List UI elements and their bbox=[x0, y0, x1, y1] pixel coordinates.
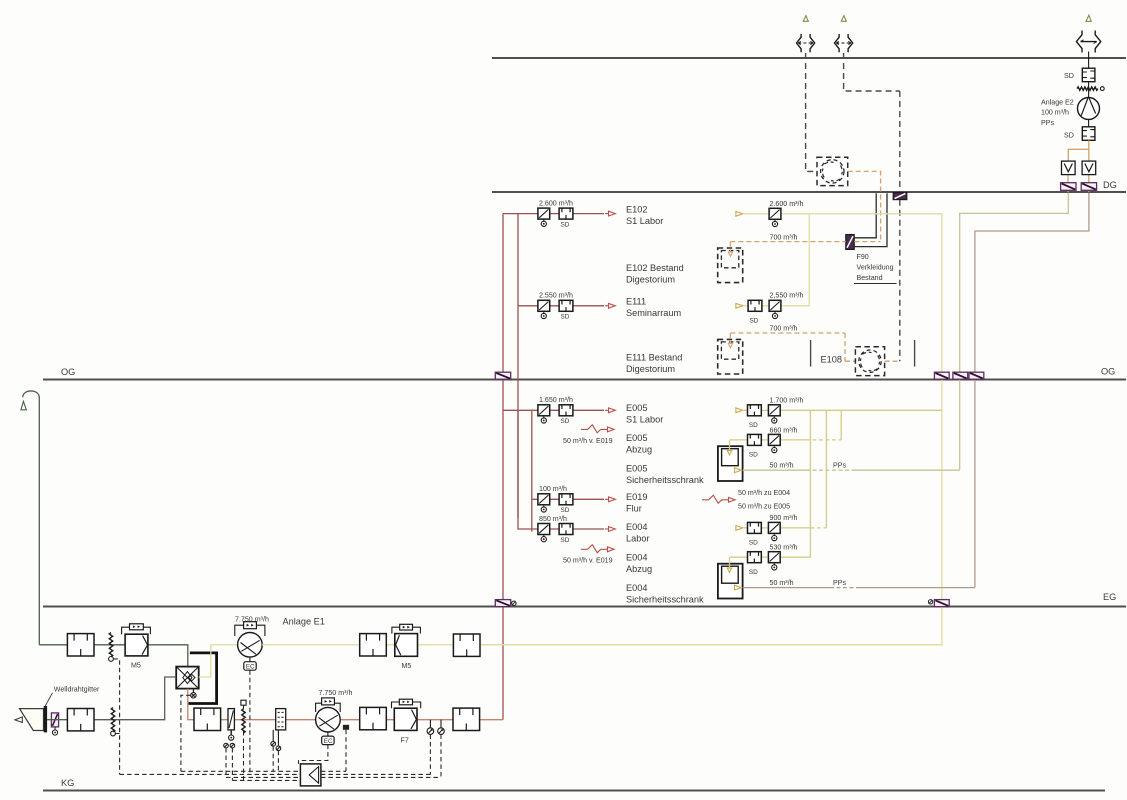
volume controller E102 bbox=[538, 208, 550, 226]
silencer 5 bbox=[194, 708, 221, 730]
wall mark right of E108 bbox=[914, 340, 916, 367]
svg-text:850 m³/h: 850 m³/h bbox=[539, 515, 567, 523]
silencer SD top (Anlage E2) bbox=[1082, 68, 1095, 82]
transfer zigzag zu E004/E005 bbox=[702, 495, 735, 503]
arrow 1.700 exhaust bbox=[736, 408, 743, 413]
svg-text:OG: OG bbox=[1101, 367, 1115, 377]
svg-text:SD: SD bbox=[561, 222, 570, 229]
svg-text:DG: DG bbox=[1103, 180, 1117, 190]
heat exchanger bbox=[176, 667, 199, 689]
fire damper exhaust riser OG bbox=[934, 372, 949, 379]
crossing dashes 900 row bbox=[810, 527, 826, 529]
svg-text:PPs: PPs bbox=[833, 461, 846, 469]
exhaust discharge duct row 2 bbox=[47, 677, 176, 720]
KG floor line bbox=[43, 790, 1105, 792]
svg-text:EG: EG bbox=[1103, 592, 1116, 602]
svg-text:100 m³/h: 100 m³/h bbox=[539, 485, 567, 493]
leader Welldrahtgitter bbox=[44, 693, 53, 708]
hood drop E111 bbox=[728, 333, 732, 348]
duct attic fan to shaft (tan dashed) bbox=[848, 171, 881, 241]
arrow E111 supply bbox=[605, 303, 615, 308]
filter M5 exhaust bbox=[392, 624, 421, 656]
transfer zigzag E004 Abzug bbox=[581, 545, 614, 553]
control wire supply fan EC bbox=[299, 745, 328, 764]
svg-text:F7: F7 bbox=[401, 736, 409, 744]
fume hood E102 Bestand bbox=[718, 248, 743, 283]
volume controller E111 exhaust bbox=[769, 300, 781, 318]
EC box exhaust fan bbox=[244, 657, 256, 670]
roof vent 2 (Bestand) bbox=[835, 34, 853, 52]
silencer SD E004 bbox=[559, 524, 573, 535]
svg-text:2.600 m³/h: 2.600 m³/h bbox=[539, 200, 573, 208]
exhaust duct 900 row bbox=[744, 527, 810, 529]
silencer SD 660 bbox=[748, 434, 762, 445]
crossing dashes 50 E005 bbox=[806, 469, 855, 471]
svg-text:7.750 m³/h: 7.750 m³/h bbox=[235, 616, 269, 624]
fire damper riser EG bbox=[495, 600, 516, 607]
silencer SD E102 bbox=[559, 208, 573, 219]
control wire flex1 bbox=[113, 659, 119, 775]
branch E111 supply duct bbox=[550, 305, 604, 307]
riser 530 to 1.700 bbox=[809, 410, 811, 557]
svg-text:PPs: PPs bbox=[833, 579, 846, 587]
svg-text:SD: SD bbox=[749, 452, 758, 459]
flex end circle bbox=[1100, 87, 1104, 91]
fire damper riser OG bbox=[495, 372, 510, 379]
svg-text:M5: M5 bbox=[131, 662, 141, 670]
volume controller 660 bbox=[768, 434, 780, 452]
svg-text:2.550 m³/h: 2.550 m³/h bbox=[539, 292, 573, 300]
hook delta mark bbox=[21, 401, 26, 410]
flexible connector (zigzag) Anlage E2 bbox=[1077, 87, 1098, 90]
svg-text:700 m³/h: 700 m³/h bbox=[770, 325, 798, 333]
attic fan (Bestand) bbox=[817, 157, 848, 185]
air terminal box right bbox=[1082, 161, 1096, 175]
volume controller E111 bbox=[538, 300, 550, 318]
Bestand duct vent1 down to attic fan bbox=[806, 53, 817, 171]
fire damper on shaft at DG bbox=[893, 193, 907, 200]
hx actuator bbox=[191, 689, 196, 698]
F90 Verkleidung enclosure bbox=[854, 193, 887, 246]
svg-text:SD: SD bbox=[749, 569, 758, 576]
riser 660 to 1.700 bbox=[840, 410, 842, 440]
svg-text:SD: SD bbox=[561, 314, 570, 321]
svg-text:E111: E111 bbox=[626, 297, 646, 307]
svg-text:700 m³/h: 700 m³/h bbox=[770, 233, 798, 241]
arrow E019 supply bbox=[605, 497, 615, 502]
svg-text:Anlage E1: Anlage E1 bbox=[283, 616, 325, 626]
exhaust duct E102 row bbox=[744, 213, 942, 215]
svg-text:M5: M5 bbox=[402, 662, 412, 670]
safety cabinet E004 bbox=[718, 564, 743, 599]
controller bbox=[300, 764, 321, 786]
supply fan 7750 bbox=[316, 698, 341, 732]
branch E102 supply duct bbox=[550, 213, 604, 215]
damper sensors bbox=[224, 743, 235, 748]
EC box supply fan bbox=[322, 732, 334, 745]
exhaust duct 1.700 row bbox=[744, 409, 942, 411]
vent E2 delta mark bbox=[1086, 15, 1091, 21]
control wire damper sensors bbox=[226, 748, 232, 780]
safety cabinet riser E005 (olive) bbox=[960, 193, 1069, 470]
svg-text:Anlage E2: Anlage E2 bbox=[1041, 99, 1074, 107]
silencer 7 bbox=[453, 708, 480, 730]
svg-text:PPs: PPs bbox=[1041, 119, 1054, 127]
crossing dashes 50 E004 bbox=[830, 587, 856, 589]
silencer SD 900 bbox=[748, 522, 762, 533]
flexible connector row2b bbox=[242, 709, 245, 733]
svg-text:E005: E005 bbox=[626, 403, 647, 413]
pressure tap B bbox=[343, 725, 349, 730]
silencer 4 bbox=[67, 709, 94, 731]
svg-text:Verkleidung: Verkleidung bbox=[857, 264, 894, 272]
silencer SD E111 exhaust bbox=[748, 300, 762, 311]
supply riser (Anlage E1) bbox=[502, 214, 504, 720]
branch E005 supply duct bbox=[550, 409, 604, 411]
DG floor line bbox=[492, 191, 1126, 193]
svg-text:SD: SD bbox=[1064, 132, 1074, 140]
silencer SD 1.700 bbox=[748, 405, 762, 416]
supply distribution OG bbox=[503, 214, 538, 518]
svg-text:50 m³/h: 50 m³/h bbox=[770, 579, 794, 587]
svg-text:50 m³/h zu E005: 50 m³/h zu E005 bbox=[738, 503, 790, 511]
svg-text:EC: EC bbox=[324, 738, 333, 745]
OG floor line bbox=[43, 379, 1126, 381]
svg-text:900 m³/h: 900 m³/h bbox=[770, 514, 798, 522]
exhaust riser duct bbox=[481, 214, 942, 645]
air terminal box left bbox=[1062, 161, 1076, 175]
svg-text:Seminarraum: Seminarraum bbox=[626, 308, 681, 318]
svg-text:Bestand: Bestand bbox=[857, 274, 883, 282]
svg-text:SD: SD bbox=[1064, 72, 1074, 80]
svg-text:50 m³/h zu E004: 50 m³/h zu E004 bbox=[738, 489, 790, 497]
arrow 900 exhaust bbox=[736, 526, 743, 531]
fire damper F90 (on 700 duct) bbox=[846, 235, 854, 250]
heating coil bbox=[276, 709, 286, 730]
supply duct hx down to row bbox=[188, 689, 194, 720]
roof vent Anlage E2 bbox=[1076, 31, 1100, 53]
volume controller E102 exhaust bbox=[769, 208, 781, 226]
svg-text:KG: KG bbox=[61, 778, 74, 788]
exhaust duct 660 row bbox=[730, 439, 807, 441]
svg-text:Sicherheitsschrank: Sicherheitsschrank bbox=[626, 595, 704, 605]
svg-text:Digestorium: Digestorium bbox=[626, 364, 675, 374]
svg-text:OG: OG bbox=[61, 367, 75, 377]
control wire hx actuator bbox=[181, 695, 191, 771]
svg-text:E004: E004 bbox=[626, 522, 647, 532]
silencer SD 530 bbox=[748, 552, 762, 563]
svg-text:SD: SD bbox=[749, 540, 758, 547]
svg-text:SD: SD bbox=[561, 537, 570, 544]
silencer 2 bbox=[360, 634, 387, 656]
svg-text:Abzug: Abzug bbox=[626, 445, 652, 455]
svg-text:E111 Bestand: E111 Bestand bbox=[626, 353, 682, 363]
exhaust duct hx to fan bbox=[199, 645, 238, 677]
safety cabinet riser E004 (brown) bbox=[975, 193, 1089, 588]
duct vent to SD bbox=[1088, 52, 1090, 69]
svg-text:100 m³/h: 100 m³/h bbox=[1041, 109, 1069, 117]
pressure sensor box bbox=[241, 700, 246, 709]
silencer SD E111 bbox=[559, 300, 573, 311]
volume controller E004 bbox=[538, 524, 550, 542]
svg-text:530 m³/h: 530 m³/h bbox=[770, 543, 798, 551]
svg-text:E102: E102 bbox=[626, 205, 647, 215]
branch E019 supply duct bbox=[550, 498, 604, 500]
filter F7 bbox=[392, 699, 421, 730]
fume hood E111 Bestand bbox=[718, 339, 743, 374]
fire damper cabinet riser E004 OG bbox=[969, 372, 984, 379]
exhaust junction riser bbox=[808, 214, 810, 306]
svg-text:1.700 m³/h: 1.700 m³/h bbox=[770, 397, 804, 405]
svg-text:50 m³/h v. E019: 50 m³/h v. E019 bbox=[563, 437, 613, 445]
fresh air duct row 1 bbox=[39, 645, 188, 667]
control wire pressure tap B bbox=[345, 730, 347, 772]
arrow E005 supply bbox=[605, 408, 615, 413]
silencer 6 bbox=[360, 707, 387, 729]
svg-text:Abzug: Abzug bbox=[626, 564, 652, 574]
svg-text:SD: SD bbox=[750, 318, 759, 325]
branch E004 supply duct bbox=[550, 528, 604, 530]
svg-text:1.650 m³/h: 1.650 m³/h bbox=[539, 396, 573, 404]
duct E2 distribution bbox=[1068, 140, 1089, 192]
outside air intake hook bbox=[23, 391, 40, 645]
transfer zigzag E005 Abzug bbox=[581, 425, 614, 433]
svg-text:E102 Bestand: E102 Bestand bbox=[626, 263, 684, 273]
silencer SD bottom (Anlage E2) bbox=[1082, 127, 1095, 141]
volume controller 900 bbox=[768, 522, 780, 540]
svg-text:50 m³/h v. E019: 50 m³/h v. E019 bbox=[563, 557, 613, 565]
fan E108 (Bestand) bbox=[855, 347, 884, 376]
Bestand shaft vertical (F90) bbox=[899, 91, 901, 361]
svg-text:E005: E005 bbox=[626, 464, 647, 474]
duct 50 m3/h E005 cabinet bbox=[743, 469, 960, 471]
roof line bbox=[492, 57, 1126, 59]
riser 900 to 1.700 bbox=[825, 410, 827, 528]
exhaust duct E111 row bbox=[744, 305, 809, 307]
silencer 1 bbox=[67, 634, 94, 656]
hood drop E102 bbox=[728, 242, 732, 257]
supply distribution EG bbox=[503, 410, 538, 532]
outside damper (purple) bbox=[51, 713, 58, 735]
svg-text:Flur: Flur bbox=[626, 504, 642, 514]
svg-text:SD: SD bbox=[561, 418, 570, 425]
fire damper cabinet riser E005 OG bbox=[953, 372, 968, 379]
safety cabinet E005 bbox=[718, 446, 743, 481]
svg-text:Sicherheitsschrank: Sicherheitsschrank bbox=[626, 475, 704, 485]
silencer SD E019 bbox=[559, 494, 573, 505]
fire damper DG left (E2) bbox=[1061, 183, 1076, 191]
coil sensors bbox=[271, 730, 281, 751]
control wire coil sensors bbox=[273, 746, 278, 774]
svg-text:E004: E004 bbox=[626, 553, 647, 563]
supply duct row bbox=[221, 719, 503, 721]
svg-text:Labor: Labor bbox=[626, 534, 650, 544]
volume controller 530 bbox=[768, 552, 780, 570]
arrow E102 supply bbox=[605, 211, 615, 216]
svg-text:7.750 m³/h: 7.750 m³/h bbox=[319, 689, 353, 697]
duct SD to flex bbox=[1088, 82, 1090, 98]
silencer 3 bbox=[453, 634, 480, 656]
duct 700 m3/h E111 Bestand (tan dashed) bbox=[730, 333, 855, 361]
cabinet E005 intake drop bbox=[727, 440, 731, 455]
cabinet E004 side port arrow bbox=[735, 585, 742, 590]
bypass duct (thick) bbox=[189, 653, 217, 704]
svg-text:S1 Labor: S1 Labor bbox=[626, 216, 663, 226]
fire damper exhaust riser EG bbox=[928, 600, 949, 607]
duct E108 to shaft (tan dashed) bbox=[885, 360, 900, 362]
exhaust fan 7750 bbox=[235, 622, 265, 657]
exhaust discharge hood (Welldrahtgitter) bbox=[15, 706, 47, 733]
svg-text:660 m³/h: 660 m³/h bbox=[770, 426, 798, 434]
arrow E102 exhaust bbox=[736, 211, 743, 216]
roof vent 1 (Bestand) bbox=[797, 34, 815, 52]
svg-text:SD: SD bbox=[561, 507, 570, 514]
arrow E004 supply bbox=[605, 527, 615, 532]
vent 2 delta mark bbox=[841, 16, 846, 22]
svg-text:E004: E004 bbox=[626, 583, 647, 593]
svg-text:50 m³/h: 50 m³/h bbox=[770, 461, 794, 469]
svg-text:SD: SD bbox=[749, 422, 758, 429]
svg-text:E019: E019 bbox=[626, 492, 647, 502]
control bus lines left bbox=[120, 771, 301, 780]
flex row1 sensor circle bbox=[109, 657, 114, 662]
Bestand duct vent2 to shaft bbox=[844, 53, 900, 91]
control bus lines right bbox=[321, 771, 441, 777]
duct 700 m3/h E102 Bestand (tan dashed) bbox=[730, 241, 880, 243]
svg-text:2.600 m³/h: 2.600 m³/h bbox=[770, 200, 804, 208]
svg-text:S1 Labor: S1 Labor bbox=[626, 415, 663, 425]
svg-text:E108: E108 bbox=[821, 355, 842, 365]
flexible connector row1 bbox=[109, 633, 112, 657]
supply sensors bbox=[427, 720, 444, 735]
vent 1 delta mark bbox=[803, 16, 808, 22]
exhaust duct fan to riser bbox=[262, 644, 942, 646]
svg-text:2,550 m³/h: 2,550 m³/h bbox=[770, 292, 804, 300]
control wire exhaust fan EC bbox=[249, 670, 251, 774]
cabinet E005 side port arrow bbox=[735, 468, 742, 473]
volume controller E005 bbox=[538, 405, 550, 423]
label F90 Verkleidung Bestand bbox=[854, 253, 897, 284]
control wire supply sensors bbox=[430, 734, 441, 777]
volume controller 1.700 bbox=[768, 405, 780, 423]
volume controller E019 bbox=[538, 494, 550, 512]
svg-text:E005: E005 bbox=[626, 433, 647, 443]
flex row2 sensor circle bbox=[111, 731, 116, 736]
control wire pressure box bbox=[243, 731, 245, 780]
fire damper DG right (E2) bbox=[1081, 183, 1096, 191]
duct 50 m3/h E004 cabinet bbox=[743, 587, 975, 589]
exhaust duct 530 row bbox=[730, 556, 811, 558]
svg-text:F90: F90 bbox=[857, 253, 869, 261]
silencer SD E005 bbox=[559, 405, 573, 416]
arrow E111 exhaust bbox=[736, 303, 743, 308]
fan Anlage E2 bbox=[1078, 98, 1100, 120]
cabinet E004 intake drop bbox=[727, 557, 731, 572]
duct fan to SD bottom bbox=[1088, 120, 1090, 127]
svg-text:Digestorium: Digestorium bbox=[626, 275, 675, 285]
EG floor line bbox=[43, 606, 1126, 608]
filter M5 fresh air bbox=[122, 624, 151, 656]
duct damper narrow bbox=[228, 709, 234, 741]
flexible connector row2 bbox=[111, 708, 114, 732]
svg-text:EC: EC bbox=[246, 664, 255, 671]
svg-text:Welldrahtgitter: Welldrahtgitter bbox=[54, 686, 100, 694]
wall mark left of E108 bbox=[810, 340, 812, 367]
crossing dashes 660 row bbox=[806, 439, 841, 441]
